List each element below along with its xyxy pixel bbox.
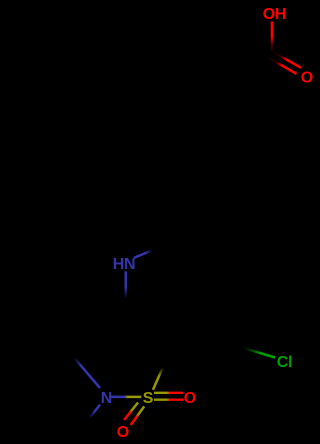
svg-text:N: N	[101, 390, 112, 407]
svg-text:HN: HN	[113, 256, 136, 273]
svg-text:OH: OH	[263, 6, 286, 23]
svg-text:O: O	[117, 424, 129, 441]
svg-text:Cl: Cl	[277, 354, 292, 371]
svg-text:O: O	[184, 390, 196, 407]
svg-text:S: S	[143, 390, 154, 407]
svg-text:O: O	[301, 70, 313, 87]
